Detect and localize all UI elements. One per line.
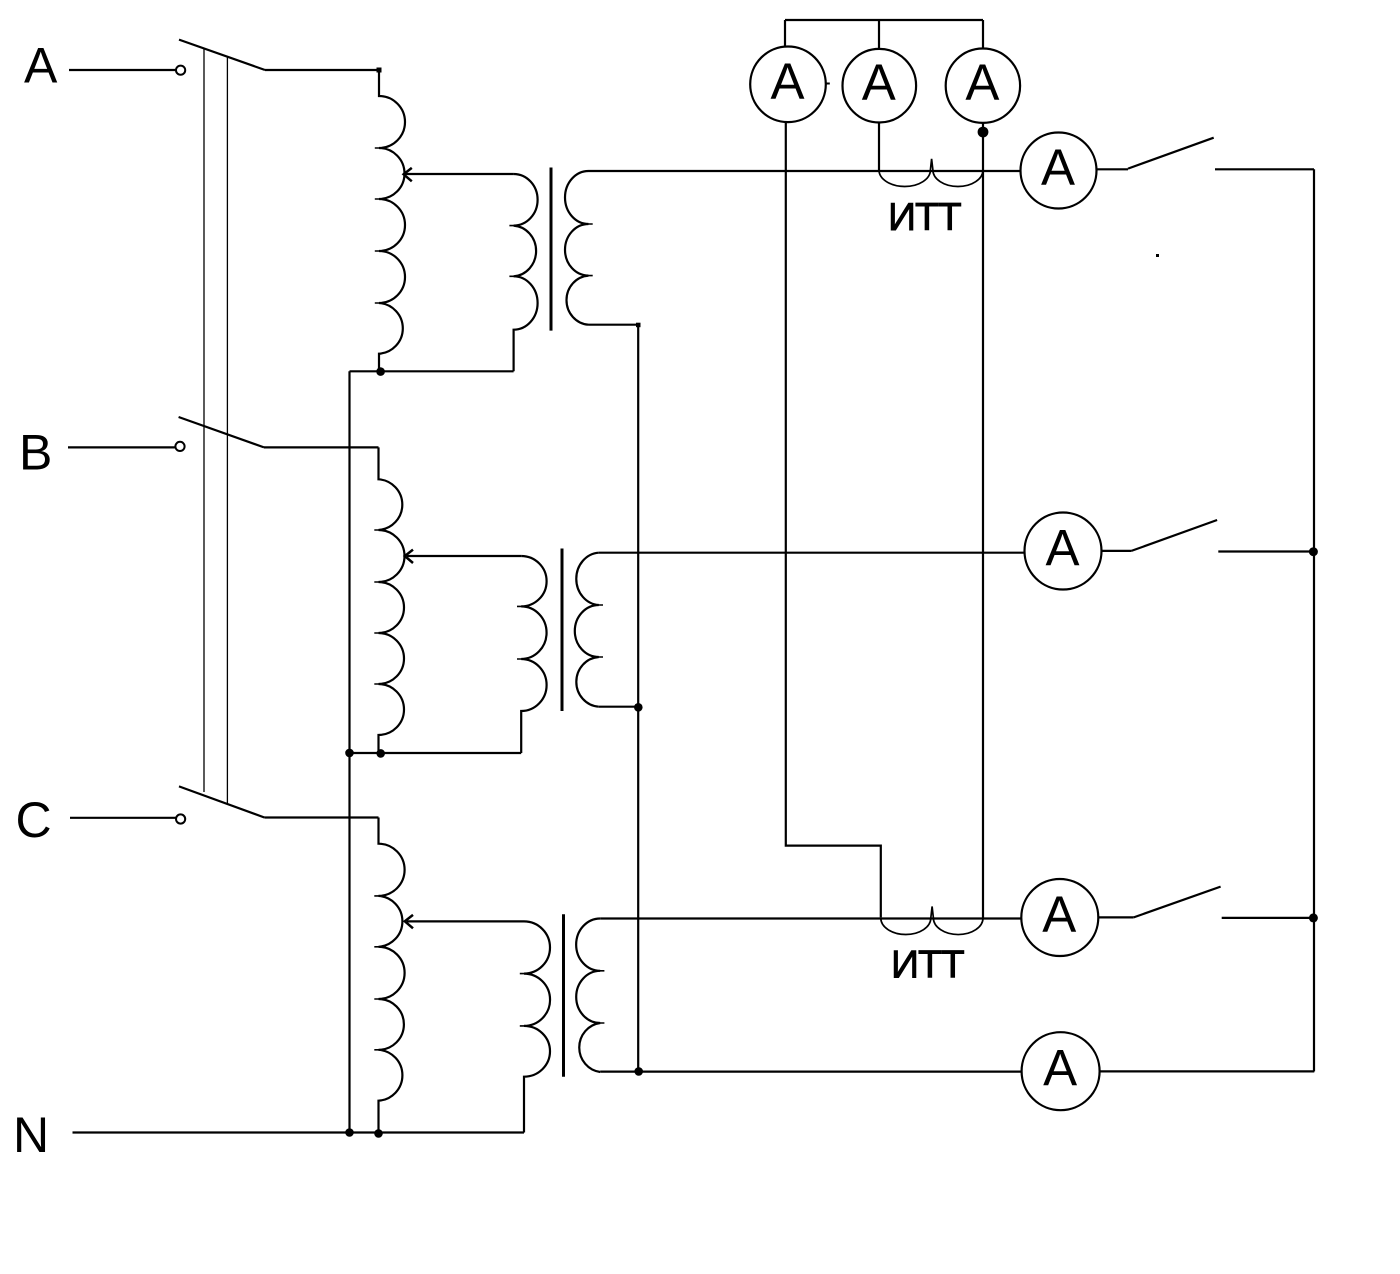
- node corner A: [377, 68, 382, 73]
- right bus vertical: [1313, 169, 1315, 1071]
- svg-text:A: A: [1043, 1040, 1077, 1097]
- ammeter PA1: [750, 47, 826, 123]
- wire bus to PA1: [784, 20, 786, 47]
- wire B bottom rail: [350, 752, 522, 754]
- wire tap LB to T2 primary: [407, 555, 521, 557]
- node T2 secondary bottom junction: [634, 703, 643, 712]
- transformer T3 primary: [524, 921, 550, 1132]
- wire secondary common vertical: [637, 325, 639, 1072]
- transformer T2 primary: [521, 556, 546, 753]
- stub on ammeter PA1 right edge: [826, 83, 830, 85]
- svg-text:ИТТ: ИТТ: [888, 196, 961, 239]
- wire S5 to right bus: [1218, 550, 1313, 552]
- wire bus to PA2: [878, 20, 880, 49]
- svg-text:A: A: [1041, 139, 1075, 196]
- node row4 common junction: [634, 1067, 643, 1076]
- wire SA to T1 autotransformer: [265, 69, 379, 71]
- coil cusp ticks T2 secondary: [597, 605, 603, 657]
- wire row4 (T3 secondary bottom to ammeter PA7): [600, 1070, 1021, 1072]
- coil cusp ticks T3 primary: [520, 974, 526, 1026]
- top bus of ammeters: [785, 19, 983, 21]
- svg-text:A: A: [1042, 886, 1076, 943]
- coil cusp ticks LB: [374, 530, 380, 684]
- wire PA6 to switch S6: [1098, 916, 1133, 918]
- svg-text:A: A: [862, 54, 896, 111]
- current transformer ITT1 winding: [879, 159, 983, 187]
- ammeter PA4: [1021, 133, 1097, 209]
- switch S4 blade: [1128, 138, 1214, 169]
- node right bus row2: [1309, 547, 1318, 556]
- wire PA7 to right bus: [1100, 1070, 1315, 1072]
- transformer T2 core: [561, 549, 564, 712]
- switch S5 blade: [1131, 520, 1217, 551]
- switch SA blade: [179, 40, 265, 70]
- svg-text:ИТТ: ИТТ: [891, 944, 964, 987]
- coil cusp ticks LC: [374, 896, 380, 1050]
- switch SC blade: [179, 786, 264, 817]
- ammeter PA2: [843, 49, 917, 123]
- wire S4 to right bus: [1215, 168, 1314, 170]
- node B rail junction left: [345, 749, 354, 758]
- transformer T2 secondary: [575, 553, 599, 707]
- wire B feed: [68, 446, 176, 448]
- wire PA1 down lead: [786, 122, 881, 917]
- wire T1 secondary bottom: [589, 324, 639, 326]
- ammeter PA5: [1025, 513, 1102, 590]
- node T1 secondary bottom corner: [636, 323, 641, 328]
- node A coil bottom junction: [376, 367, 385, 376]
- wire PA3 down lead: [982, 123, 984, 919]
- wire N feed: [73, 1131, 525, 1133]
- tap arrow LC: [405, 915, 413, 928]
- svg-text:N: N: [13, 1107, 49, 1163]
- wire left drop A to N: [348, 371, 350, 1132]
- wire row1 (T1 secondary to ammeter PA4): [589, 170, 1021, 172]
- autotransformer winding LB (phase B): [379, 447, 405, 753]
- ganged switch link line 1: [203, 49, 205, 792]
- switch S6 blade: [1134, 887, 1221, 918]
- wire row3 (T3 secondary to ammeter PA6): [600, 917, 1021, 919]
- wire PA5 to switch S5: [1102, 550, 1132, 552]
- svg-text:B: B: [19, 425, 52, 481]
- wire tap LA to T1 primary: [403, 173, 514, 175]
- wire A feed: [69, 69, 176, 71]
- wire tap LC to T3 primary: [407, 920, 524, 922]
- svg-text:A: A: [770, 53, 804, 110]
- wire SC to LC: [264, 816, 378, 818]
- svg-text:A: A: [965, 54, 999, 111]
- ammeter PA7: [1022, 1032, 1100, 1110]
- switch SA terminal: [176, 66, 185, 75]
- wire PA4 to switch S4: [1097, 168, 1129, 170]
- wire row2 (T2 secondary to ammeter PA5): [599, 552, 1025, 554]
- ammeter PA6: [1021, 879, 1098, 956]
- wire S6 to right bus: [1222, 917, 1313, 919]
- transformer T1 primary: [514, 174, 538, 371]
- current transformer ITT2 winding: [881, 907, 983, 935]
- wire bus to PA3: [982, 20, 984, 49]
- node right bus row3: [1309, 913, 1318, 922]
- transformer T1 core: [550, 168, 553, 331]
- ganged switch link line 2: [226, 57, 228, 803]
- wire A bottom rail: [350, 370, 514, 372]
- tap arrow LB: [405, 550, 413, 563]
- transformer T1 secondary: [565, 171, 589, 325]
- coil cusp ticks T2 primary: [517, 606, 523, 659]
- switch SB blade: [179, 417, 264, 447]
- node B coil bottom junction: [376, 749, 385, 758]
- transformer T3 core: [562, 914, 565, 1076]
- switch SB terminal: [175, 442, 184, 451]
- wire SB to LB: [264, 446, 379, 448]
- tap arrow LA: [404, 168, 412, 181]
- wire PA2 down lead: [878, 123, 880, 170]
- coil cusp ticks T1 secondary: [587, 224, 593, 276]
- node PA3 lead dot: [978, 127, 989, 138]
- coil cusp ticks LA: [375, 148, 381, 303]
- wire C feed: [70, 817, 176, 819]
- wire T2 secondary bottom: [599, 706, 638, 708]
- svg-text:A: A: [1045, 520, 1079, 577]
- stray mark: [1156, 254, 1159, 257]
- switch SC terminal: [176, 814, 185, 823]
- transformer T3 secondary: [576, 919, 600, 1073]
- svg-text:C: C: [16, 792, 52, 848]
- node N rail junction left: [345, 1128, 354, 1137]
- node C coil bottom junction: [374, 1129, 383, 1138]
- autotransformer winding LA (phase A): [379, 70, 405, 371]
- ammeter PA3: [946, 48, 1020, 122]
- autotransformer winding LC (phase C): [379, 818, 405, 1133]
- coil cusp ticks T3 secondary: [599, 971, 605, 1023]
- svg-text:A: A: [24, 38, 58, 94]
- coil cusp ticks T1 primary: [509, 226, 515, 277]
